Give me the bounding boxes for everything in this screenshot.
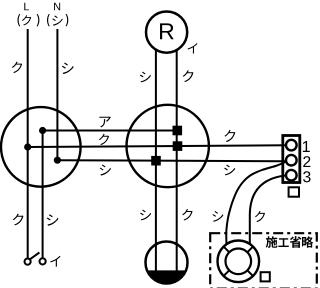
label シ on N wire <box>62 63 74 75</box>
label シ on switch wire <box>47 214 59 226</box>
terminal block mark square <box>289 187 299 196</box>
VVF joint box (center junction box) <box>127 105 209 187</box>
wire ク from lamp R right pin down to lamp receptacle <box>176 49 178 271</box>
label シ right of joint box <box>224 165 235 176</box>
terminal 3 <box>286 170 297 181</box>
lamp R (round ceiling light) circle <box>146 11 187 52</box>
outlet box (left junction box) <box>1 107 81 187</box>
connection square 1 (ring sleeve, ア to lamp wire) <box>173 126 183 136</box>
label シ on lamp R left wire <box>140 72 151 83</box>
label ク above lamp receptacle <box>182 209 192 220</box>
wire switch return (ア line drop) from node A down to switch イ <box>42 131 44 259</box>
terminal block body <box>283 136 300 183</box>
label (ク) katakana <box>22 15 31 25</box>
label ク on L wire <box>12 62 22 73</box>
wire ク horizontal from node B to terminal 1 <box>28 145 287 147</box>
node A junction dot (switch return / ア) <box>39 127 46 134</box>
label ク on lamp R right wire <box>183 70 194 82</box>
label シ on line シ <box>100 164 111 175</box>
node B junction dot (L / ク) <box>24 143 31 150</box>
label ク right of joint box <box>224 130 235 142</box>
terminal number 3 <box>303 171 310 182</box>
switch イ contact R <box>40 258 46 264</box>
terminal number 1 <box>303 141 310 152</box>
omitted lamp tick SE <box>247 270 253 276</box>
label ク on curve wire <box>255 211 265 222</box>
label ク on line ク <box>99 134 109 145</box>
label ク on switch wire <box>13 214 24 226</box>
label (シ) paren right <box>66 14 69 27</box>
omitted ceiling lamp inner circle <box>226 248 252 274</box>
terminal 1 <box>286 140 297 151</box>
omitted ceiling lamp outer circle <box>218 240 260 282</box>
label イ beside switch <box>50 256 60 267</box>
label N <box>54 3 60 10</box>
terminal 2 <box>286 155 297 166</box>
label (シ) paren left <box>47 14 50 27</box>
label ア on line ア <box>99 117 110 128</box>
label (シ) katakana <box>52 16 62 26</box>
lamp receptacle circle <box>146 242 188 284</box>
label シ on curve wire <box>212 211 223 222</box>
wire L (ク) from source L down through outlet box to switch <box>27 29 29 259</box>
label 施工省略 <box>266 236 278 248</box>
switch イ contact L <box>25 259 31 265</box>
lamp R letter <box>160 23 174 39</box>
omitted lamp mark square <box>261 272 270 281</box>
omitted lamp tick SW <box>224 270 230 276</box>
wire シ from lamp R left pin down to lamp receptacle <box>155 49 157 271</box>
wire シ curve from terminal 2 to omitted lamp <box>226 162 286 244</box>
label イ beside lamp R <box>188 43 198 53</box>
switch イ blade <box>30 253 40 260</box>
construction-omitted dashed boundary box <box>210 233 317 288</box>
omitted lamp tick NW <box>224 247 230 253</box>
label シ above lamp receptacle <box>140 210 151 221</box>
omitted lamp tick NE <box>247 247 253 253</box>
wire ア horizontal from node A to connection square 1 <box>43 130 178 132</box>
lamp receptacle filled base segment <box>147 270 186 283</box>
node C junction dot (N / シ) <box>54 157 61 164</box>
connection square 3 (ring sleeve, シ) <box>151 156 161 166</box>
connection square 2 (ring sleeve, ク) <box>173 141 183 151</box>
terminal number 2 <box>303 156 310 167</box>
wire シ horizontal from node C to terminal 2 <box>57 160 286 161</box>
wire N (シ) from source N down to node in outlet box <box>56 29 58 160</box>
label (ク) paren right <box>37 14 40 27</box>
label (ク) under L : paren left <box>17 14 20 27</box>
label L <box>24 3 29 10</box>
wire ク curve from terminal 3 to omitted lamp <box>250 176 286 244</box>
